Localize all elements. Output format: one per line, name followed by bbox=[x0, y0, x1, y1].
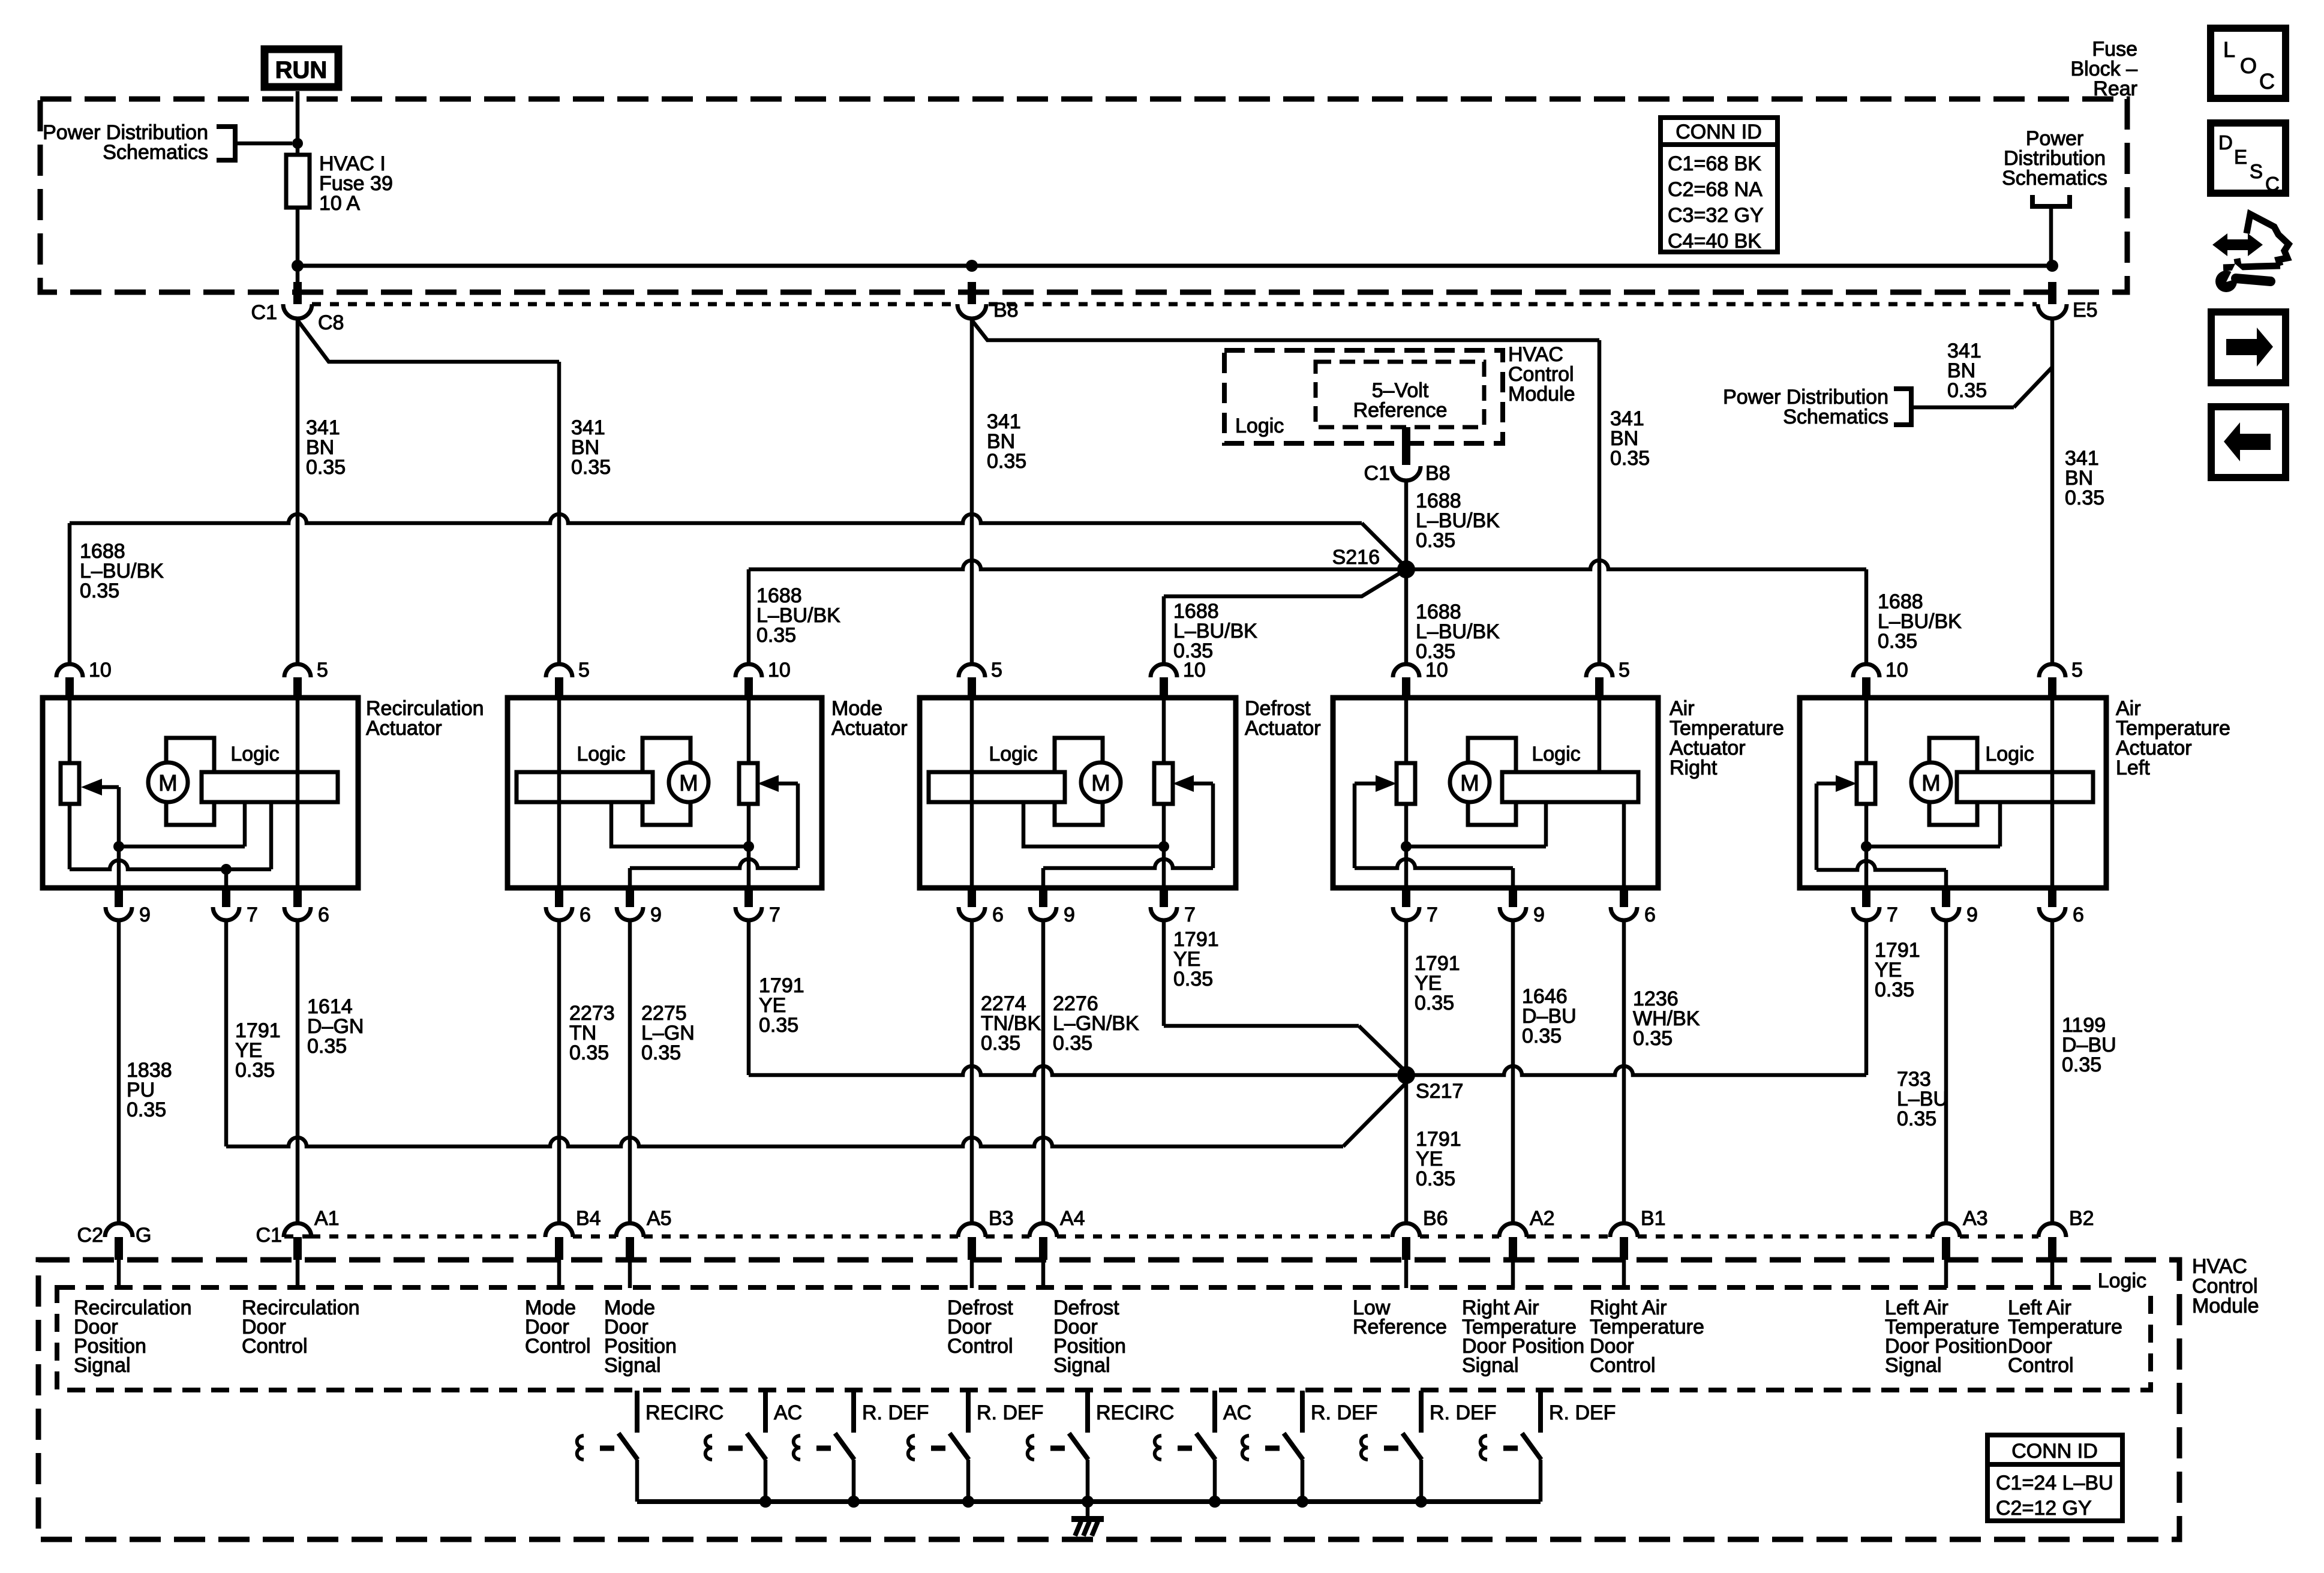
svg-text:0.35: 0.35 bbox=[1610, 447, 1650, 470]
wiper arrow (recirculation) bbox=[81, 779, 102, 795]
wire 1838 PU recirculation pin9 to C2/G bbox=[117, 920, 121, 1223]
wire 2276 L-GN/BK defrost pin9 to A4 bbox=[1041, 920, 1046, 1223]
svg-text:C: C bbox=[2265, 173, 2280, 195]
wire pin10 through potentiometer to pin7 (defrost) bbox=[1162, 698, 1166, 763]
svg-text:0.35: 0.35 bbox=[2062, 1053, 2101, 1076]
svg-text:R. DEF: R. DEF bbox=[862, 1401, 929, 1424]
svg-text:B3: B3 bbox=[989, 1207, 1014, 1230]
svg-text:0.35: 0.35 bbox=[641, 1041, 681, 1064]
wire 2275 L-GN mode pin9 to A5 bbox=[628, 920, 632, 1223]
wire 1791 YE recirculation pin7 to S217 bbox=[224, 920, 229, 1146]
ground symbol bbox=[1086, 1502, 1090, 1516]
wire wiper to pin9 (mode) bbox=[630, 859, 798, 868]
node switch bus junction x=2171 bbox=[1296, 1496, 1308, 1508]
pin 7 (bottom) bbox=[1402, 888, 1410, 907]
svg-text:M: M bbox=[1091, 771, 1110, 796]
svg-text:C1=68 BK: C1=68 BK bbox=[1668, 152, 1761, 175]
svg-text:AC: AC bbox=[774, 1401, 802, 1424]
pin 5 (top) bbox=[284, 664, 311, 677]
svg-text:E5: E5 bbox=[2073, 299, 2098, 322]
svg-text:M: M bbox=[158, 771, 178, 796]
svg-text:C2=68 NA: C2=68 NA bbox=[1668, 178, 1762, 201]
pin 5 (top) bbox=[1586, 664, 1613, 677]
connector A3 pin bbox=[1932, 1223, 1960, 1237]
wire pot bottom to logic bar (recirculation) bbox=[70, 860, 271, 869]
wire 1688 to air temp right pin 10 bbox=[1404, 569, 1409, 664]
wire logic bar tap (mode) bbox=[611, 802, 749, 846]
svg-text:C2: C2 bbox=[77, 1224, 103, 1247]
RUN ignition switch position box bbox=[265, 49, 338, 87]
svg-text:7: 7 bbox=[247, 903, 258, 926]
svg-text:10: 10 bbox=[768, 659, 791, 682]
connector B3 pin bbox=[958, 1223, 986, 1237]
svg-text:A1: A1 bbox=[314, 1207, 340, 1230]
air temperature actuator left box bbox=[1800, 698, 2106, 888]
svg-text:10: 10 bbox=[1885, 659, 1908, 682]
svg-text:R. DEF: R. DEF bbox=[1311, 1401, 1377, 1424]
svg-text:0.35: 0.35 bbox=[987, 450, 1026, 473]
svg-text:C1: C1 bbox=[251, 301, 277, 324]
CONN ID table (fuse block) bbox=[1661, 118, 1777, 252]
motor frame (defrost) bbox=[1055, 738, 1103, 825]
logic bar (recirculation) bbox=[202, 772, 338, 802]
wire 1688 L-BU/BK main run to recirculation pin 10 bbox=[70, 514, 1362, 523]
wire pin5 to pin6 (recirculation) bbox=[296, 698, 300, 888]
svg-text:5: 5 bbox=[2071, 659, 2083, 682]
svg-text:B1: B1 bbox=[1641, 1207, 1666, 1230]
svg-text:0.35: 0.35 bbox=[1633, 1027, 1673, 1050]
svg-text:0.35: 0.35 bbox=[1522, 1025, 1562, 1047]
position sensor potentiometer (air temp right) bbox=[1397, 763, 1415, 804]
svg-text:R. DEF: R. DEF bbox=[1549, 1401, 1616, 1424]
air temperature actuator right box bbox=[1333, 698, 1658, 888]
motor frame (air temp left) bbox=[1929, 738, 1977, 825]
logic bar (defrost) bbox=[929, 772, 1065, 802]
svg-text:CONN ID: CONN ID bbox=[1676, 121, 1762, 143]
svg-text:6: 6 bbox=[1644, 903, 1656, 926]
wire pin5 to pin6 (defrost) bbox=[970, 698, 974, 888]
wire pin10 through potentiometer to pin7 (air temp right) bbox=[1404, 698, 1409, 763]
switch RECIRC at x=1813 bbox=[1085, 1391, 1090, 1433]
svg-text:Logic: Logic bbox=[230, 743, 279, 766]
svg-text:S: S bbox=[2250, 160, 2263, 182]
wire 341 BN B8 branch to air temp right pin 5 bbox=[972, 321, 1599, 340]
svg-text:9: 9 bbox=[1064, 903, 1075, 926]
svg-text:Logic: Logic bbox=[577, 743, 625, 766]
wire 1688 to mode actuator pin 10 bbox=[749, 560, 1406, 569]
svg-text:L: L bbox=[2223, 37, 2235, 62]
svg-text:0.35: 0.35 bbox=[306, 456, 346, 479]
pin 9 (bottom) bbox=[1039, 888, 1047, 907]
wire 1236 WH/BK air temp right pin6 to B1 bbox=[1622, 920, 1626, 1223]
svg-text:5: 5 bbox=[991, 659, 1002, 682]
motor frame (mode) bbox=[642, 738, 690, 825]
svg-text:B4: B4 bbox=[576, 1207, 601, 1230]
node bus at fuse bbox=[292, 260, 304, 272]
node bus at E5 drop bbox=[2046, 260, 2058, 272]
wire wiper to logic bar (recirculation) bbox=[119, 845, 245, 849]
switch AC at x=2025 bbox=[1212, 1391, 1217, 1433]
connector A2 pin bbox=[1499, 1223, 1527, 1237]
svg-text:7: 7 bbox=[1427, 903, 1438, 926]
wire 341 BN C1 to recirculation actuator pin 5 bbox=[296, 319, 300, 664]
node junction power distribution tap bbox=[292, 138, 303, 149]
mode actuator box bbox=[508, 698, 822, 888]
motor M (recirculation) bbox=[148, 763, 188, 802]
svg-text:Rear: Rear bbox=[2093, 77, 2137, 100]
svg-text:Actuator: Actuator bbox=[831, 717, 908, 740]
svg-text:Actuator: Actuator bbox=[366, 717, 442, 740]
position sensor potentiometer (mode) bbox=[739, 763, 758, 804]
svg-text:C1=24 L–BU: C1=24 L–BU bbox=[1996, 1472, 2113, 1494]
svg-text:O: O bbox=[2240, 53, 2257, 78]
wire 341 BN B8 to defrost actuator pin 5 bbox=[970, 319, 974, 664]
wiper arrow (air temp right) bbox=[1376, 775, 1397, 792]
connector dotted line (top) bbox=[312, 302, 957, 307]
node switch bus junction x=2025 bbox=[1209, 1496, 1221, 1508]
svg-text:6: 6 bbox=[992, 903, 1004, 926]
switch RECIRC at x=1062 bbox=[635, 1391, 639, 1433]
svg-text:A3: A3 bbox=[1963, 1207, 1988, 1230]
pin 10 (top) bbox=[56, 664, 83, 677]
pin 9 (bottom) bbox=[1509, 888, 1517, 907]
CONN ID table (bottom module) bbox=[1987, 1435, 2122, 1521]
svg-text:Reference: Reference bbox=[1353, 1316, 1447, 1338]
switch common bus wire bbox=[637, 1499, 1541, 1504]
svg-text:Schematics: Schematics bbox=[2002, 167, 2107, 190]
pin 6 (bottom) bbox=[1620, 888, 1628, 907]
motor M (mode) bbox=[669, 763, 708, 802]
wire 1646 D-BU air temp right pin9 to A2 bbox=[1511, 920, 1515, 1223]
pin 5 (top) bbox=[546, 664, 572, 677]
pin 6 (bottom) bbox=[293, 888, 302, 907]
svg-text:0.35: 0.35 bbox=[80, 580, 119, 602]
svg-text:Logic: Logic bbox=[989, 743, 1037, 766]
logic dashed box (5 volt) bbox=[1316, 362, 1484, 427]
svg-text:C1: C1 bbox=[256, 1224, 282, 1247]
motor M (air temp left) bbox=[1911, 763, 1951, 802]
svg-text:RUN: RUN bbox=[275, 57, 328, 83]
wire pin10 through potentiometer to pin7 (mode) bbox=[747, 698, 751, 763]
svg-text:0.35: 0.35 bbox=[2065, 487, 2104, 509]
svg-text:RECIRC: RECIRC bbox=[645, 1401, 723, 1424]
connector B8 pin bbox=[968, 282, 976, 304]
svg-text:5: 5 bbox=[1619, 659, 1630, 682]
svg-text:0.35: 0.35 bbox=[571, 456, 611, 479]
position sensor potentiometer (air temp left) bbox=[1857, 763, 1875, 804]
logic bar (mode) bbox=[517, 772, 653, 802]
connector C1/C8 pin bbox=[293, 282, 302, 304]
svg-text:0.35: 0.35 bbox=[1947, 379, 1987, 402]
wire 1688 to defrost actuator pin 10 bbox=[1164, 569, 1406, 596]
svg-text:M: M bbox=[1460, 771, 1479, 796]
recirculation actuator box bbox=[43, 698, 358, 888]
pin 7 (bottom) bbox=[222, 888, 230, 907]
svg-text:0.35: 0.35 bbox=[1053, 1032, 1092, 1055]
svg-text:Actuator: Actuator bbox=[1245, 717, 1321, 740]
logic bar (air temp left) bbox=[1957, 772, 2093, 802]
svg-text:M: M bbox=[1921, 771, 1941, 796]
pin 7 (bottom) bbox=[744, 888, 753, 907]
node switch bus junction x=1813 bbox=[1082, 1496, 1094, 1508]
svg-text:Right: Right bbox=[1670, 757, 1718, 779]
connector C1/B8 pin of HVAC control module bbox=[1402, 427, 1410, 465]
HVAC control module dashed box (bottom) bbox=[38, 1260, 2179, 1539]
svg-text:Logic: Logic bbox=[2098, 1269, 2146, 1292]
motor frame (recirculation) bbox=[166, 738, 214, 825]
svg-text:Left: Left bbox=[2116, 757, 2150, 779]
pin 5 (top) bbox=[2039, 664, 2065, 677]
wire 2273 TN mode pin6 to B4 bbox=[557, 920, 562, 1223]
node wiper junction (recirculation) bbox=[113, 841, 124, 852]
connector A5 pin bbox=[616, 1223, 644, 1237]
svg-text:Control: Control bbox=[947, 1335, 1013, 1358]
wire 341 BN C8 branch to mode actuator pin 5 bbox=[298, 321, 559, 362]
svg-text:10: 10 bbox=[1183, 659, 1206, 682]
svg-text:6: 6 bbox=[580, 903, 591, 926]
svg-text:A5: A5 bbox=[647, 1207, 672, 1230]
motor frame (air temp right) bbox=[1468, 738, 1516, 825]
pin 10 (top) bbox=[735, 664, 762, 677]
switch R. DEF at x=2171 bbox=[1300, 1391, 1305, 1433]
pin 9 (bottom) bbox=[115, 888, 123, 907]
wire pin10 through potentiometer (recirculation) bbox=[68, 698, 72, 763]
node pin7 tap (recirculation) bbox=[221, 864, 232, 875]
svg-text:RECIRC: RECIRC bbox=[1096, 1401, 1174, 1424]
pin 10 (top) bbox=[1853, 664, 1879, 677]
svg-text:C: C bbox=[2259, 69, 2275, 94]
wire wiper to pin9 (air temp left) bbox=[1816, 861, 1946, 870]
fuse block bus wire bbox=[298, 264, 2052, 268]
wire wiper to pin9 (air temp right) bbox=[1355, 859, 1513, 868]
wire pin10 through potentiometer to pin7 (air temp left) bbox=[1864, 698, 1869, 763]
svg-text:9: 9 bbox=[139, 903, 151, 926]
svg-text:Control: Control bbox=[2008, 1354, 2074, 1377]
connector B6 pin bbox=[1392, 1223, 1420, 1237]
svg-text:6: 6 bbox=[2073, 903, 2084, 926]
wire 1791 YE S217 to air temp left pin7 bbox=[1406, 1066, 1866, 1075]
svg-text:CONN ID: CONN ID bbox=[2011, 1440, 2098, 1463]
logic dashed box (bottom module) bbox=[57, 1287, 2151, 1390]
fuse F39 HVAC I 10A bbox=[286, 155, 310, 208]
wire wiper to pin9 (defrost) bbox=[1043, 859, 1213, 868]
wire 1791 YE air temp right pin7 through S217 to B6 bbox=[1404, 920, 1409, 1223]
svg-text:Signal: Signal bbox=[1053, 1354, 1110, 1377]
svg-text:B8: B8 bbox=[993, 299, 1019, 322]
wire logic bar tap (defrost) bbox=[1023, 802, 1164, 846]
svg-text:0.35: 0.35 bbox=[1875, 978, 1914, 1001]
node junction (air temp left) bbox=[1861, 841, 1872, 852]
wiper arrow (air temp left) bbox=[1836, 775, 1857, 792]
svg-text:7: 7 bbox=[1184, 903, 1196, 926]
wire fuse to bus bbox=[296, 208, 300, 284]
HVAC control module dashed box (top) bbox=[1224, 350, 1503, 443]
svg-text:9: 9 bbox=[1966, 903, 1978, 926]
svg-text:Schematics: Schematics bbox=[103, 141, 208, 164]
pin 9 (bottom) bbox=[1942, 888, 1950, 907]
connector dotted line (bottom) bbox=[284, 1235, 311, 1239]
svg-text:0.35: 0.35 bbox=[981, 1032, 1020, 1055]
svg-text:0.35: 0.35 bbox=[1416, 529, 1455, 552]
svg-text:Signal: Signal bbox=[1462, 1354, 1519, 1377]
connector B1 pin bbox=[1610, 1223, 1638, 1237]
pin 7 (bottom) bbox=[1862, 888, 1870, 907]
svg-text:Module: Module bbox=[1508, 383, 1575, 406]
wire 2274 TN/BK defrost pin6 to B3 bbox=[970, 920, 974, 1223]
connector B2 pin bbox=[2038, 1223, 2066, 1237]
LOC navigation box icon bbox=[2211, 28, 2286, 98]
svg-text:C3=32 GY: C3=32 GY bbox=[1668, 204, 1764, 227]
motor M (defrost) bbox=[1081, 763, 1121, 802]
svg-text:AC: AC bbox=[1223, 1401, 1251, 1424]
logic bar (air temp right) bbox=[1502, 772, 1638, 802]
wire logic bar to pin6 (air temp right) bbox=[1622, 802, 1626, 888]
svg-text:A4: A4 bbox=[1060, 1207, 1085, 1230]
splice S216 bbox=[1397, 560, 1415, 578]
svg-text:10 A: 10 A bbox=[319, 192, 360, 215]
svg-text:6: 6 bbox=[318, 903, 329, 926]
node junction (mode) bbox=[743, 841, 754, 852]
svg-text:S217: S217 bbox=[1416, 1080, 1463, 1103]
svg-text:Reference: Reference bbox=[1353, 399, 1448, 422]
back arrow navigation icon bbox=[2211, 407, 2286, 478]
pin 5 (top) bbox=[959, 664, 985, 677]
svg-text:9: 9 bbox=[1533, 903, 1545, 926]
node switch bus junction x=1276 bbox=[759, 1496, 771, 1508]
svg-text:R. DEF: R. DEF bbox=[977, 1401, 1043, 1424]
wire pin5 to pin6 (mode) bbox=[557, 698, 562, 888]
pin 10 (top) bbox=[1393, 664, 1419, 677]
DESC navigation box icon bbox=[2211, 123, 2286, 193]
svg-text:C8: C8 bbox=[318, 311, 344, 334]
svg-text:C4=40 BK: C4=40 BK bbox=[1668, 230, 1761, 253]
switch AC at x=1276 bbox=[763, 1391, 768, 1433]
switch R. DEF at x=1614 bbox=[966, 1391, 971, 1433]
svg-text:B6: B6 bbox=[1423, 1207, 1448, 1230]
svg-text:A2: A2 bbox=[1530, 1207, 1555, 1230]
connector A4 pin bbox=[1029, 1223, 1057, 1237]
svg-text:Control: Control bbox=[525, 1335, 591, 1358]
switch R. DEF at x=2369 bbox=[1419, 1391, 1424, 1433]
svg-text:B8: B8 bbox=[1425, 462, 1451, 485]
svg-text:9: 9 bbox=[650, 903, 662, 926]
position sensor potentiometer (defrost) bbox=[1154, 763, 1173, 804]
svg-text:Signal: Signal bbox=[604, 1354, 661, 1377]
svg-text:Logic: Logic bbox=[1235, 415, 1284, 437]
svg-text:Schematics: Schematics bbox=[1783, 406, 1888, 428]
node bus at B8 bbox=[966, 260, 978, 272]
svg-text:10: 10 bbox=[89, 659, 112, 682]
svg-text:E: E bbox=[2234, 146, 2247, 168]
wire 733 L-BU air temp left pin9 to A3 bbox=[1944, 920, 1948, 1223]
forward arrow navigation icon bbox=[2211, 312, 2286, 383]
wire 341 BN E5 to air temp left pin 5 bbox=[2050, 319, 2055, 664]
svg-text:0.35: 0.35 bbox=[307, 1035, 347, 1058]
svg-text:Signal: Signal bbox=[74, 1354, 131, 1377]
node junction (air temp right) bbox=[1401, 841, 1412, 852]
pin 7 (bottom) bbox=[1160, 888, 1168, 907]
svg-text:Control: Control bbox=[1590, 1354, 1656, 1377]
troubleshooting wrench icon bbox=[2212, 233, 2263, 256]
wiper arrow (defrost) bbox=[1173, 775, 1194, 792]
wire from RUN switch to fuse bbox=[296, 91, 300, 155]
svg-text:0.35: 0.35 bbox=[1173, 968, 1213, 990]
motor M (air temp right) bbox=[1450, 763, 1490, 802]
svg-text:S216: S216 bbox=[1332, 546, 1380, 569]
svg-text:Signal: Signal bbox=[1885, 1354, 1942, 1377]
wire 1688 L-BU/BK from module to S216 bbox=[1404, 481, 1409, 569]
position sensor potentiometer (recirculation) bbox=[61, 763, 79, 804]
svg-text:G: G bbox=[136, 1224, 151, 1247]
svg-text:0.35: 0.35 bbox=[759, 1014, 798, 1037]
splice S217 bbox=[1397, 1066, 1415, 1084]
pin 6 (bottom) bbox=[2048, 888, 2056, 907]
pin 10 (top) bbox=[1151, 664, 1177, 677]
svg-text:0.35: 0.35 bbox=[569, 1041, 609, 1064]
pin 9 (bottom) bbox=[626, 888, 634, 907]
svg-text:5: 5 bbox=[317, 659, 328, 682]
svg-text:7: 7 bbox=[769, 903, 780, 926]
pin 6 (bottom) bbox=[968, 888, 976, 907]
svg-text:0.35: 0.35 bbox=[756, 624, 796, 647]
svg-text:R. DEF: R. DEF bbox=[1430, 1401, 1496, 1424]
defrost actuator box bbox=[920, 698, 1236, 888]
fuse block - rear dashed outline bbox=[40, 99, 2127, 292]
wire 1614 D-GN recirculation pin6 to C1/A1 bbox=[296, 920, 300, 1223]
node switch bus junction x=2369 bbox=[1415, 1496, 1427, 1508]
svg-text:C2=12 GY: C2=12 GY bbox=[1996, 1497, 2092, 1520]
svg-text:B2: B2 bbox=[2069, 1207, 2094, 1230]
svg-text:0.35: 0.35 bbox=[235, 1059, 275, 1082]
wiper arrow (mode) bbox=[758, 775, 779, 792]
wire 1688 to air temp left pin 10 bbox=[1406, 560, 1866, 569]
wire 1791 YE defrost pin7 to S217 bbox=[1162, 920, 1166, 1026]
connector E5 pin bbox=[2048, 282, 2056, 304]
svg-text:C1: C1 bbox=[1364, 462, 1390, 485]
svg-text:10: 10 bbox=[1425, 659, 1448, 682]
wire logic bar tap (air temp right) bbox=[1406, 802, 1546, 846]
svg-text:D: D bbox=[2218, 131, 2233, 154]
svg-text:0.35: 0.35 bbox=[1415, 992, 1454, 1014]
wire pin5 to logic bar (air temp right) bbox=[1598, 698, 1602, 772]
switch R. DEF at x=1423 bbox=[851, 1391, 856, 1433]
svg-text:Logic: Logic bbox=[1532, 743, 1580, 766]
node switch bus junction x=1423 bbox=[848, 1496, 860, 1508]
svg-text:0.35: 0.35 bbox=[1878, 630, 1917, 653]
node switch bus junction x=1614 bbox=[962, 1496, 974, 1508]
svg-text:Control: Control bbox=[242, 1335, 308, 1358]
svg-text:5: 5 bbox=[578, 659, 590, 682]
switch R. DEF at x=2568 bbox=[1538, 1391, 1543, 1433]
connector B4 pin bbox=[545, 1223, 573, 1237]
svg-text:0.35: 0.35 bbox=[1897, 1107, 1936, 1130]
node junction (defrost) bbox=[1158, 841, 1169, 852]
svg-text:0.35: 0.35 bbox=[1416, 1167, 1455, 1190]
svg-text:Logic: Logic bbox=[1985, 743, 2034, 766]
wire 1791 YE mode pin7 to S217 bbox=[747, 920, 751, 1075]
svg-text:0.35: 0.35 bbox=[127, 1098, 166, 1121]
svg-text:7: 7 bbox=[1887, 903, 1898, 926]
svg-text:M: M bbox=[679, 771, 698, 796]
pin 6 (bottom) bbox=[555, 888, 563, 907]
svg-text:Module: Module bbox=[2192, 1295, 2259, 1317]
wire logic bar tap (air temp left) bbox=[1866, 802, 2000, 846]
wire 1199 D-BU air temp left pin6 to B2 bbox=[2050, 920, 2055, 1223]
wire pin5 to pin6 (air temp left) bbox=[2050, 698, 2055, 888]
